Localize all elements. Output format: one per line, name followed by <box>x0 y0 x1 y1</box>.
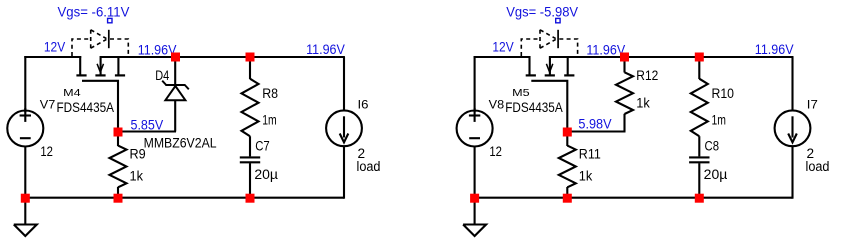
svg-text:V7: V7 <box>40 100 56 112</box>
wire top rail left segment (12V net) <box>24 56 81 58</box>
svg-text:5.98V: 5.98V <box>578 116 612 132</box>
svg-text:C8: C8 <box>705 138 720 153</box>
svg-text:12: 12 <box>489 144 502 159</box>
svg-text:load: load <box>357 159 381 174</box>
svg-text:FDS4435A: FDS4435A <box>57 100 115 115</box>
wire bottom rail <box>24 197 344 199</box>
svg-text:R10: R10 <box>712 86 735 101</box>
blue marker Vgs right <box>556 18 560 22</box>
svg-text:R9: R9 <box>130 146 146 161</box>
svg-text:R11: R11 <box>579 146 601 161</box>
svg-text:Vgs= -5.98V: Vgs= -5.98V <box>506 4 579 20</box>
node 5.98V gate right <box>563 128 572 137</box>
svg-text:V8: V8 <box>489 100 505 112</box>
node gnd C7 <box>246 194 255 203</box>
svg-text:5.85V: 5.85V <box>131 116 164 132</box>
svg-text:1m: 1m <box>262 113 277 128</box>
node 11.96V / D4 <box>171 53 180 62</box>
svg-text:C7: C7 <box>255 138 270 153</box>
ground right ckt <box>463 225 486 237</box>
svg-text:load: load <box>806 159 830 174</box>
current source I6 <box>343 57 345 111</box>
resistor R9 <box>117 132 119 147</box>
svg-text:20µ: 20µ <box>704 167 728 182</box>
svg-text:11.96V: 11.96V <box>306 41 345 57</box>
capacitor C8 <box>689 157 709 162</box>
node 5.85V gate <box>114 128 123 137</box>
svg-text:11.96V: 11.96V <box>586 42 625 58</box>
svg-text:1k: 1k <box>636 96 650 111</box>
node 11.96V / R12 <box>620 53 629 62</box>
wire V7 top stem <box>24 56 26 112</box>
wire ground stem right ckt <box>474 197 476 225</box>
svg-text:M4: M4 <box>63 87 81 99</box>
node gnd R9 <box>114 194 123 203</box>
svg-text:11.96V: 11.96V <box>755 41 794 57</box>
blue marker Vgs left <box>108 18 112 22</box>
wire top rail left segment right ckt (12V net) <box>474 56 531 58</box>
svg-text:20µ: 20µ <box>254 167 278 182</box>
svg-text:R12: R12 <box>636 68 658 83</box>
svg-text:MMBZ6V2AL: MMBZ6V2AL <box>144 136 217 151</box>
svg-text:FDS4435A: FDS4435A <box>505 100 563 115</box>
wire V8 bottom stem <box>474 147 476 199</box>
resistor R10 <box>698 57 700 79</box>
current source I7 <box>791 57 793 111</box>
svg-text:R8: R8 <box>262 86 278 101</box>
wire top rail right segment (11.96V net) <box>101 56 345 58</box>
wire V7 bottom stem <box>24 147 26 199</box>
wire V8 top stem <box>474 56 476 112</box>
node gnd V7 <box>21 194 30 203</box>
wire ground stem <box>24 197 26 225</box>
svg-text:M5: M5 <box>512 87 530 99</box>
svg-text:12V: 12V <box>492 38 514 54</box>
svg-text:I7: I7 <box>807 99 818 111</box>
zener diode D4 <box>162 57 189 132</box>
resistor R12 <box>616 57 633 132</box>
capacitor C7 <box>240 157 260 162</box>
transistor M5 <box>521 30 577 132</box>
wire R10 to C8 <box>698 136 700 156</box>
ground <box>14 225 37 237</box>
wire bottom rail right ckt <box>474 197 793 199</box>
voltage source V7 <box>7 108 43 147</box>
node 11.96V / R8 <box>246 53 255 62</box>
svg-text:1m: 1m <box>712 113 727 128</box>
svg-text:D4: D4 <box>155 68 169 83</box>
svg-text:1k: 1k <box>579 168 593 183</box>
svg-text:12: 12 <box>40 144 53 159</box>
node 11.96V / R10 <box>695 53 704 62</box>
resistor R11 <box>566 132 568 147</box>
node gnd V8 <box>470 194 479 203</box>
wire top rail right segment right ckt (11.96V net) <box>550 56 794 58</box>
resistor R8 <box>249 57 251 79</box>
voltage source V8 <box>457 108 493 147</box>
wire R8 to C7 <box>249 136 251 156</box>
wire gate node to D4 anode <box>117 130 176 132</box>
transistor M4 <box>72 30 128 132</box>
wire gate node to R12 <box>566 130 625 132</box>
node gnd C8 <box>695 194 704 203</box>
svg-text:12V: 12V <box>44 38 66 54</box>
svg-text:1k: 1k <box>130 168 144 183</box>
node gnd R11 <box>563 194 572 203</box>
svg-text:I6: I6 <box>358 99 369 111</box>
svg-text:Vgs= -6.11V: Vgs= -6.11V <box>58 4 131 20</box>
